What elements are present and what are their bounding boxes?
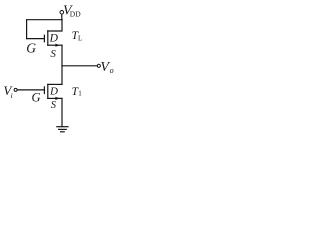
svg-text:D: D bbox=[49, 85, 58, 97]
svg-text:o: o bbox=[110, 66, 114, 75]
svg-text:D: D bbox=[49, 33, 59, 45]
svg-text:G: G bbox=[32, 91, 41, 105]
svg-text:DD: DD bbox=[70, 10, 81, 19]
svg-text:G: G bbox=[26, 41, 36, 56]
svg-text:i: i bbox=[11, 91, 13, 100]
svg-text:1: 1 bbox=[78, 90, 82, 98]
svg-text:L: L bbox=[78, 34, 82, 42]
svg-text:S: S bbox=[51, 100, 57, 111]
svg-text:S: S bbox=[50, 48, 56, 60]
